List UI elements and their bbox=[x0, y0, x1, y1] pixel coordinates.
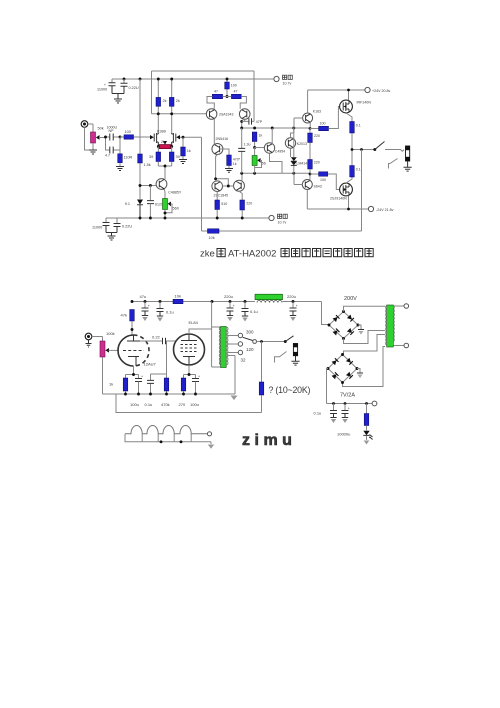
svg-text:1k: 1k bbox=[109, 382, 113, 387]
svg-text:? (10~20K): ? (10~20K) bbox=[269, 385, 311, 395]
svg-text:C4954: C4954 bbox=[275, 150, 285, 154]
terminal -24V bbox=[368, 206, 393, 211]
svg-text:0.22U: 0.22U bbox=[129, 86, 139, 90]
wire tap3 to bridge B2 top bbox=[344, 335, 386, 355]
input jack bbox=[81, 121, 93, 150]
junction dots top rails bbox=[123, 78, 229, 116]
wire feedback bottom bbox=[202, 229, 362, 240]
resistor 0.1 top source bbox=[350, 122, 361, 150]
transistor 2SC1845 mirror right bbox=[234, 180, 245, 191]
resistor 100 upper center bbox=[225, 82, 237, 98]
wire top rails and verticals left section bbox=[112, 71, 270, 133]
green trimmer 5k bias bbox=[252, 148, 266, 174]
resistor 110R gate leak bbox=[118, 137, 133, 167]
capacitor C1 11000u rail filter bbox=[97, 79, 116, 94]
svg-text:12AU7: 12AU7 bbox=[144, 362, 157, 367]
wire source bus to current source bbox=[158, 165, 171, 179]
dual JFET 2SK389 bbox=[150, 130, 180, 147]
svg-text:110R: 110R bbox=[124, 156, 133, 160]
capacitor 220u rail right bbox=[287, 294, 298, 321]
capacitor 47u rail bbox=[140, 294, 150, 321]
ground 110R bbox=[116, 167, 124, 171]
resistor 2k right drain bbox=[169, 97, 174, 106]
capacitor 220u rail mid bbox=[224, 294, 235, 321]
ground volume pot bbox=[89, 150, 97, 154]
headphone jack top bbox=[389, 146, 412, 171]
potentiometer 100k bbox=[100, 331, 119, 394]
wire B1 AC top to transformer bbox=[344, 306, 386, 311]
svg-text:0.22: 0.22 bbox=[152, 335, 161, 340]
resistor 1k cathode bbox=[109, 378, 128, 394]
capacitor 100u cathode bbox=[130, 375, 143, 408]
svg-text:2k: 2k bbox=[163, 99, 167, 103]
wire +24 rail bbox=[308, 89, 365, 92]
svg-text:1.3u: 1.3u bbox=[244, 143, 251, 147]
svg-text:4.7: 4.7 bbox=[105, 154, 110, 158]
svg-text:220: 220 bbox=[314, 134, 320, 138]
svg-text:1k: 1k bbox=[259, 134, 263, 138]
wire mirror base tie bbox=[214, 177, 233, 187]
svg-text:100: 100 bbox=[231, 84, 237, 88]
bridge B2 ground bbox=[357, 369, 363, 379]
resistor 39 right source bbox=[169, 147, 179, 167]
svg-text:200V: 200V bbox=[344, 296, 357, 302]
svg-text:220u: 220u bbox=[224, 294, 233, 299]
wire feedback gate node bbox=[180, 136, 202, 231]
svg-text:100: 100 bbox=[320, 122, 326, 126]
svg-text:220: 220 bbox=[246, 202, 252, 206]
svg-text:K163: K163 bbox=[313, 110, 321, 114]
heater wiring bbox=[125, 425, 214, 448]
svg-text:11000: 11000 bbox=[97, 88, 107, 92]
transistor driver bottom S643 bbox=[294, 173, 322, 209]
resistor 2k left drain bbox=[156, 97, 161, 106]
resistor 1k feedback to ground bbox=[181, 137, 191, 159]
capacitor 0.22U bottom filter bbox=[114, 218, 133, 233]
capacitor 0.1u rail mid bbox=[242, 302, 258, 322]
svg-text:11000: 11000 bbox=[92, 226, 102, 230]
svg-text:2k: 2k bbox=[176, 99, 180, 103]
capacitor C2 0.22U rail filter bbox=[121, 79, 139, 94]
LED indicator bbox=[363, 431, 372, 445]
switch output bbox=[373, 142, 404, 152]
power transformer (green) bbox=[385, 305, 394, 347]
svg-text:+: + bbox=[198, 375, 200, 379]
resistor 10k rail series bbox=[173, 294, 183, 304]
svg-text:2N5416: 2N5416 bbox=[216, 137, 229, 141]
resistor LED series bbox=[364, 404, 369, 431]
svg-text:+: + bbox=[104, 83, 106, 87]
svg-text:zke: zke bbox=[200, 249, 215, 260]
svg-text:K389: K389 bbox=[157, 130, 166, 134]
secondary taps bbox=[227, 330, 254, 395]
wire B2 left to DC rail bbox=[327, 369, 329, 404]
svg-text:10.7v: 10.7v bbox=[278, 221, 287, 225]
bridge B1 ground bbox=[358, 325, 364, 335]
svg-text:+: + bbox=[141, 375, 143, 379]
svg-text:-24V 21.8v: -24V 21.8v bbox=[376, 208, 394, 212]
tube 12AU7 bbox=[118, 335, 157, 367]
svg-text:270: 270 bbox=[179, 402, 186, 407]
resistor 100 input series bbox=[120, 130, 150, 139]
svg-text:100u: 100u bbox=[190, 402, 199, 407]
svg-text:50k: 50k bbox=[98, 127, 104, 131]
svg-text:0.1u: 0.1u bbox=[166, 310, 174, 315]
resistor 470k grid leak bbox=[161, 341, 170, 407]
svg-text:1k: 1k bbox=[187, 149, 191, 153]
terminal mid-point bottom bbox=[269, 214, 287, 224]
wire tap4 to bridge B2 bottom bbox=[343, 347, 386, 387]
wire mirror right collector up bbox=[241, 173, 243, 181]
switch headphone bottom bbox=[284, 336, 294, 343]
transistor K2013 bbox=[285, 128, 307, 157]
terminal mid-point top bbox=[270, 75, 292, 85]
capacitor 47P bbox=[242, 114, 263, 125]
tap selector switch bbox=[243, 337, 285, 343]
svg-text:0.1: 0.1 bbox=[356, 124, 361, 128]
green trimmer 560 emitter bbox=[163, 190, 179, 219]
capacitor 0.1u bias bbox=[147, 186, 163, 219]
svg-text:2SC1845: 2SC1845 bbox=[214, 194, 229, 198]
svg-text:EL84: EL84 bbox=[189, 320, 199, 325]
svg-text:0.1u: 0.1u bbox=[314, 411, 322, 416]
wire right emitter to 47P node bbox=[242, 119, 245, 128]
wire current source base bbox=[139, 184, 156, 187]
resistor 510 mirror left emitter bbox=[215, 192, 227, 219]
resistor 39 left source bbox=[149, 147, 161, 167]
resistor 0.1 bottom source bbox=[350, 150, 361, 178]
svg-text:56: 56 bbox=[262, 162, 266, 166]
resistor 47 right upper bbox=[231, 90, 241, 99]
zener 9.1 bbox=[125, 200, 143, 219]
diode LM4148 pair bbox=[291, 128, 309, 173]
svg-text:47k: 47k bbox=[121, 313, 127, 318]
resistor ? 10-20K load bbox=[259, 342, 310, 413]
transformer mains terminals bbox=[394, 304, 409, 348]
wire B1 bottom to transformer tap bbox=[344, 331, 386, 344]
transistor 2SA1943 right bbox=[219, 109, 250, 120]
capacitor 0.22 coupling bbox=[140, 335, 176, 345]
transistor C4885 current source bbox=[156, 179, 182, 195]
svg-text:LM4148: LM4148 bbox=[297, 162, 310, 166]
svg-text:220: 220 bbox=[314, 161, 320, 165]
svg-text:2SJ9140N: 2SJ9140N bbox=[330, 197, 347, 201]
svg-text:47: 47 bbox=[214, 90, 218, 94]
svg-text:32: 32 bbox=[241, 358, 247, 363]
transistor 2SC1845 mirror left bbox=[212, 181, 228, 198]
output transformer (green) bbox=[189, 302, 228, 368]
svg-text:10.7v: 10.7v bbox=[283, 82, 292, 86]
svg-text:560: 560 bbox=[173, 207, 179, 211]
svg-text:100: 100 bbox=[320, 178, 326, 182]
MOSFET IRF9140N bbox=[330, 177, 352, 209]
resistor 270 el84 cathode bbox=[179, 365, 196, 407]
wire B+ rail bbox=[131, 300, 330, 324]
svg-text:39: 39 bbox=[149, 155, 153, 159]
headphone jack bottom bbox=[275, 344, 300, 366]
bridge rectifier B1 bbox=[328, 310, 360, 340]
svg-text:+: + bbox=[348, 407, 350, 411]
ground bottom filter bbox=[106, 233, 117, 241]
ground filter caps top bbox=[114, 99, 122, 103]
potentiometer 50k volume bbox=[91, 127, 106, 151]
svg-text:+: + bbox=[296, 304, 298, 308]
capacitor 4.7 input parallel bbox=[105, 137, 120, 158]
capacitor 11000 bottom filter bbox=[92, 218, 110, 233]
capacitor 0.1u grid2 bbox=[145, 374, 167, 407]
svg-text:C4885Y: C4885Y bbox=[168, 191, 182, 195]
svg-text:+: + bbox=[233, 304, 235, 308]
wire -24 rail bbox=[307, 208, 368, 211]
resistor 47 left upper bbox=[212, 90, 222, 99]
transistor 2N5416 vas bbox=[212, 137, 228, 155]
resistor 220 upper inter-driver bbox=[308, 127, 320, 159]
svg-text:10k: 10k bbox=[209, 236, 215, 240]
wire mid bus y128 bbox=[240, 127, 310, 130]
wire upper pair emitter bends bbox=[207, 97, 246, 109]
wire left collector down bbox=[213, 119, 215, 145]
svg-text:2k: 2k bbox=[161, 140, 165, 144]
svg-text:100u: 100u bbox=[130, 402, 139, 407]
svg-text:300: 300 bbox=[246, 330, 254, 335]
svg-text:S643: S643 bbox=[314, 185, 322, 189]
wire DC output rail bbox=[327, 401, 377, 406]
svg-text:47u: 47u bbox=[140, 294, 147, 299]
bridge rectifier B2 bbox=[327, 353, 359, 384]
resistor 220 mirror right emitter bbox=[239, 191, 252, 218]
svg-text:zimu: zimu bbox=[242, 432, 296, 449]
capacitor 0.1u rail left bbox=[157, 302, 174, 322]
ground arrow tube rail bbox=[231, 396, 238, 401]
wire output node bbox=[351, 148, 375, 231]
svg-text:47P: 47P bbox=[256, 120, 263, 124]
svg-text:220u: 220u bbox=[287, 294, 296, 299]
svg-text:100k: 100k bbox=[106, 331, 115, 336]
wire base link c4954 bbox=[255, 147, 265, 149]
resistor 47k plate load bbox=[121, 310, 135, 335]
resistor 220 lower inter-driver bbox=[308, 160, 320, 176]
resistor 100 gate top bbox=[310, 107, 340, 131]
svg-text:1k: 1k bbox=[233, 162, 237, 166]
title text bbox=[200, 249, 373, 260]
transistor 2SA1943 left bbox=[206, 109, 217, 120]
svg-text:510: 510 bbox=[221, 202, 227, 206]
transistor driver top K163 bbox=[294, 90, 321, 129]
svg-text:39: 39 bbox=[176, 155, 180, 159]
input jack bottom amp bbox=[85, 333, 102, 347]
svg-text:AT-HA2002: AT-HA2002 bbox=[228, 249, 276, 260]
MOSFET IRF140N bbox=[340, 90, 372, 122]
svg-text:K2013: K2013 bbox=[297, 142, 307, 146]
resistor 470R base bbox=[220, 149, 241, 169]
capacitor 1000u NP input bbox=[106, 126, 121, 141]
resistor 1k bias string bbox=[252, 132, 262, 149]
svg-text:10k: 10k bbox=[175, 294, 181, 299]
svg-text:10000u: 10000u bbox=[337, 432, 350, 437]
choke filter (green) bbox=[255, 294, 283, 302]
svg-text:2SA1943: 2SA1943 bbox=[219, 112, 233, 116]
svg-text:0.1u: 0.1u bbox=[250, 309, 258, 314]
transistor C4954 bbox=[264, 128, 285, 173]
svg-text:+: + bbox=[148, 304, 150, 308]
capacitor 1.3u bbox=[238, 128, 250, 173]
svg-text:120: 120 bbox=[246, 347, 254, 352]
terminal +24V bbox=[365, 87, 391, 92]
resistor 1.5k bias divider bbox=[138, 79, 151, 199]
tube EL84 bbox=[174, 320, 205, 365]
wire cap join bbox=[112, 94, 124, 100]
svg-text:47: 47 bbox=[234, 90, 238, 94]
svg-text:470k: 470k bbox=[161, 402, 170, 407]
svg-text:0.22U: 0.22U bbox=[122, 225, 132, 229]
wire tube1 cathode network bbox=[126, 366, 139, 378]
svg-text:9.1: 9.1 bbox=[125, 202, 130, 206]
ground 470R bbox=[225, 169, 233, 173]
capacitor 0.1u PSU bbox=[314, 404, 338, 424]
capacitor 10000u PSU bbox=[337, 404, 350, 437]
svg-text:0.1u: 0.1u bbox=[145, 402, 153, 407]
svg-text:NP: NP bbox=[109, 129, 115, 133]
ground feedback 1k bbox=[179, 160, 187, 164]
svg-text:0.1: 0.1 bbox=[356, 168, 361, 172]
wire bottom return bbox=[116, 394, 262, 413]
svg-text:1.5k: 1.5k bbox=[144, 163, 151, 167]
svg-text:+24V 20.8v: +24V 20.8v bbox=[372, 89, 390, 93]
wire low bus y173.3 bbox=[240, 172, 310, 175]
resistor 100 gate bottom bbox=[310, 172, 340, 190]
trimmer 2k source (red) bbox=[157, 140, 173, 149]
svg-text:100: 100 bbox=[125, 130, 131, 134]
svg-text:IRF140N: IRF140N bbox=[357, 101, 372, 105]
svg-text:7V/2A: 7V/2A bbox=[340, 393, 355, 399]
wire ground rail tube amp bbox=[103, 393, 236, 396]
wire bottom mid rail bbox=[106, 217, 268, 220]
wire vas emitter down bbox=[216, 155, 218, 179]
svg-text:6120: 6120 bbox=[155, 203, 163, 207]
capacitor 100u el84 bbox=[190, 375, 200, 408]
